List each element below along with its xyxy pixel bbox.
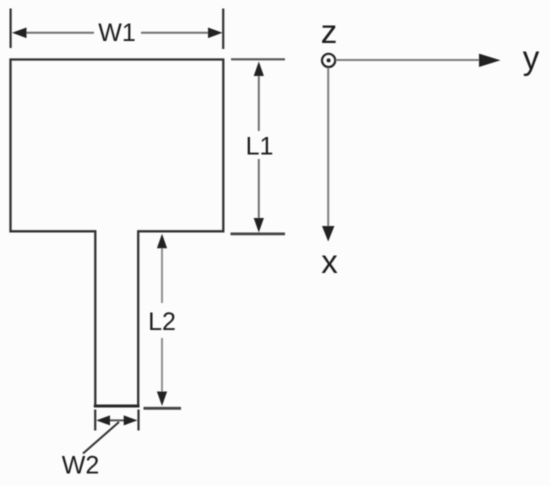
dimension L2 bottom arrowhead (157, 392, 167, 407)
dimension W2 right arrowhead (124, 415, 138, 425)
y axis arrowhead (479, 54, 501, 67)
dimension L1 bottom arrowhead (254, 218, 264, 233)
svg-text:x: x (321, 243, 338, 280)
y axis line (336, 59, 482, 61)
dimension W1 right extension line (222, 9, 224, 50)
feed line bottom edge (94, 405, 140, 408)
dimension L1 bottom extension line (231, 232, 286, 235)
x axis line (327, 68, 329, 228)
svg-text:z: z (321, 13, 338, 50)
dimension L2 top arrowhead (157, 234, 167, 249)
dimension L2 line upper segment (161, 246, 163, 303)
dimension L2 bottom extension line (144, 407, 182, 410)
dimension L1 line upper segment (258, 73, 260, 131)
dimension W1 right arrowhead (208, 28, 223, 39)
dimension W1 left extension line (10, 9, 12, 49)
dimension W1 line right segment (141, 32, 210, 34)
leader line for W2 (83, 422, 119, 454)
patch antenna outline with feed line (11, 60, 224, 407)
svg-text:W1: W1 (98, 19, 136, 47)
dimension W1 line left segment (24, 32, 94, 34)
x axis arrowhead (322, 226, 334, 242)
dimension W2 right extension line (137, 410, 139, 431)
dimension W2 left extension line (94, 410, 96, 431)
dimension W2 line (100, 419, 134, 421)
dimension L1 top arrowhead (254, 62, 264, 77)
origin symbol circle (322, 54, 335, 67)
svg-text:y: y (523, 39, 540, 76)
dimension W2 left arrowhead (96, 415, 110, 425)
svg-text:L1: L1 (246, 133, 274, 161)
dimension W1 left arrowhead (12, 28, 27, 39)
dimension L1 line lower segment (258, 159, 260, 220)
svg-text:L2: L2 (148, 308, 176, 336)
dimension L1 top extension line (231, 58, 285, 60)
svg-text:W2: W2 (62, 452, 100, 480)
origin symbol dot (327, 58, 331, 62)
dimension L2 line lower segment (161, 338, 163, 394)
